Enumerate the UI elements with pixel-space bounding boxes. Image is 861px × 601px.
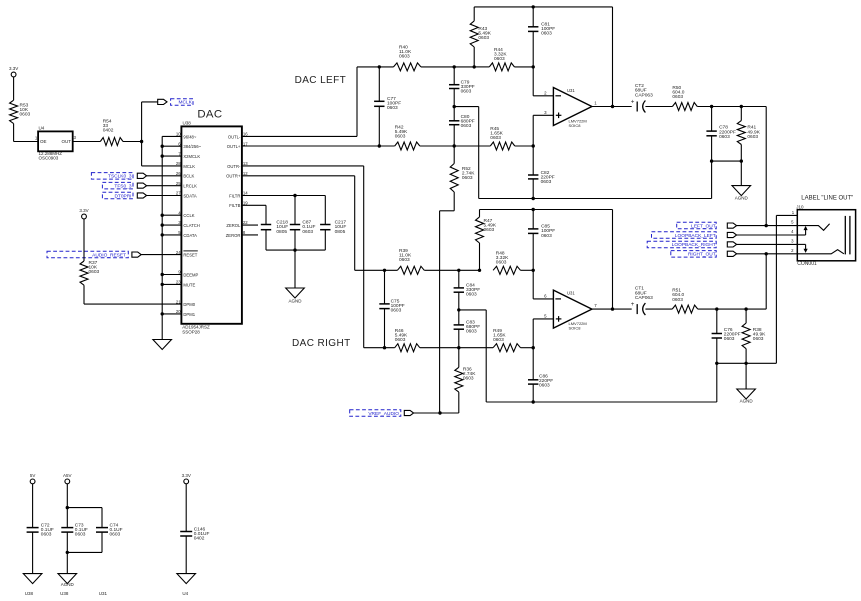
- svg-text:RIGHT_OUT: RIGHT_OUT: [688, 252, 716, 258]
- svg-text:DPM0: DPM0: [183, 302, 195, 307]
- node: [532, 346, 535, 349]
- svg-text:22: 22: [243, 220, 248, 225]
- wire: [459, 347, 533, 349]
- svg-text:0603: 0603: [75, 532, 86, 538]
- svg-text:ZEROR: ZEROR: [226, 233, 241, 238]
- resistor R48: [493, 250, 520, 274]
- power 3.3V (DPM0 pull-up): [79, 208, 88, 219]
- ground AGND (right channel): [737, 389, 756, 404]
- svg-text:BCLK: BCLK: [183, 174, 194, 179]
- svg-text:CAP063: CAP063: [635, 295, 653, 301]
- svg-text:SOIC8: SOIC8: [569, 326, 582, 331]
- svg-text:OUTR+: OUTR+: [226, 174, 241, 179]
- wire to op-amp pin 2: [533, 67, 553, 96]
- wire: [420, 145, 454, 147]
- capacitor C84: [454, 270, 481, 310]
- wire: [142, 142, 182, 166]
- wire OUTR+: [242, 176, 398, 270]
- svg-text:0603: 0603: [541, 31, 552, 37]
- svg-text:0603: 0603: [466, 329, 477, 335]
- svg-text:A5V: A5V: [63, 473, 72, 478]
- wire to LEFT_OUT: [765, 107, 767, 226]
- svg-text:0603: 0603: [747, 134, 758, 140]
- svg-text:U38: U38: [60, 591, 69, 596]
- svg-text:0603: 0603: [494, 56, 505, 62]
- power 3.3V (oscillator pull-up): [9, 66, 18, 77]
- node: [378, 65, 476, 68]
- capacitor C217: [320, 220, 346, 235]
- node: [66, 506, 69, 509]
- svg-text:CON001: CON001: [797, 261, 817, 267]
- net LOOPBACK_RIGHT: [647, 241, 797, 248]
- svg-text:0603: 0603: [399, 54, 410, 60]
- svg-text:SSOP28: SSOP28: [182, 329, 200, 334]
- capacitor C81: [528, 7, 555, 67]
- node: [293, 248, 296, 251]
- ground (C146): [177, 574, 196, 584]
- capacitor C87: [290, 196, 316, 235]
- capacitor C74: [96, 523, 123, 538]
- svg-text:0805: 0805: [276, 229, 287, 235]
- svg-text:0603: 0603: [478, 35, 489, 41]
- capacitor C80: [449, 107, 475, 146]
- svg-text:DAC: DAC: [197, 109, 222, 121]
- svg-text:U38: U38: [25, 591, 34, 596]
- svg-text:3.3V: 3.3V: [79, 208, 88, 213]
- svg-text:AUDIO_RESET: AUDIO_RESET: [92, 252, 126, 258]
- net MCLK off-page connector: [158, 99, 193, 106]
- resistor R41: [737, 107, 760, 162]
- svg-text:AGND: AGND: [735, 196, 749, 201]
- capacitor C77: [374, 67, 401, 146]
- wire: [454, 145, 533, 147]
- svg-text:AGND: AGND: [288, 299, 302, 304]
- wire: [123, 141, 142, 143]
- node: [532, 5, 535, 8]
- svg-text:OUTR-: OUTR-: [227, 164, 241, 169]
- wire tap rail to AGND net: [454, 107, 711, 199]
- resistor R37: [80, 260, 100, 285]
- node: [611, 105, 614, 108]
- wire ZEROR stub: [242, 234, 258, 236]
- svg-text:3.3V: 3.3V: [182, 473, 191, 478]
- wire to op-amp pin 5: [533, 319, 553, 348]
- svg-text:CAP063: CAP063: [635, 92, 653, 98]
- resistor R39: [397, 248, 424, 274]
- oscillator U4 12.288MHZ: [35, 125, 77, 160]
- node: [532, 197, 535, 200]
- svg-text:0603: 0603: [672, 297, 683, 303]
- node: [383, 269, 481, 272]
- net AUDIO_RESET: [47, 251, 181, 258]
- svg-text:X2MCLK: X2MCLK: [183, 154, 200, 159]
- wire: [717, 215, 777, 363]
- svg-text:0603: 0603: [541, 233, 552, 239]
- ground AGND (A5V): [58, 574, 77, 587]
- svg-text:0603: 0603: [724, 336, 735, 342]
- label U38 (power): [25, 591, 34, 596]
- svg-text:RESET: RESET: [183, 253, 197, 258]
- capacitor C83: [454, 310, 481, 348]
- wire: [67, 532, 102, 574]
- bus junction dots: [161, 145, 164, 316]
- svg-text:U4: U4: [39, 125, 45, 130]
- svg-text:U38: U38: [183, 120, 192, 125]
- svg-text:LRCLK: LRCLK: [183, 184, 197, 189]
- power 5V: [30, 473, 36, 484]
- wire: [740, 161, 742, 186]
- svg-text:0603: 0603: [484, 227, 495, 233]
- net TFS0_3: [102, 182, 181, 189]
- resistor R43: [470, 7, 492, 67]
- power 3.3V (C146): [182, 473, 191, 484]
- wire op-amp output: [592, 106, 632, 108]
- svg-text:DAC LEFT: DAC LEFT: [295, 75, 347, 86]
- op-amp U31 (left channel): [544, 88, 597, 128]
- capacitor C78: [706, 107, 736, 162]
- label U38 (A5V): [60, 591, 69, 596]
- svg-text:0603: 0603: [496, 260, 507, 266]
- svg-text:0402: 0402: [194, 536, 205, 542]
- wire to op-amp pin 3: [533, 115, 553, 146]
- wire: [521, 269, 534, 271]
- wire: [294, 250, 296, 288]
- svg-text:21: 21: [176, 299, 181, 304]
- resistor R36: [455, 348, 476, 392]
- wire FILTR: [242, 196, 325, 225]
- svg-text:0603: 0603: [302, 229, 313, 235]
- wire feedback riser (right): [612, 210, 614, 310]
- ground AGND (filter caps): [286, 288, 305, 304]
- svg-text:FILTR: FILTR: [229, 193, 240, 198]
- wire: [32, 532, 34, 574]
- svg-text:0603: 0603: [41, 532, 52, 538]
- wire: [142, 102, 158, 142]
- resistor R50: [672, 85, 697, 111]
- wire: [440, 192, 455, 413]
- capacitor C76: [712, 309, 741, 363]
- resistor R49: [493, 328, 520, 352]
- svg-text:0603: 0603: [490, 135, 501, 141]
- node C84/C83 tap: [457, 308, 460, 311]
- node C79/C80 tap: [453, 105, 456, 108]
- node: [611, 307, 614, 310]
- capacitor C218: [261, 220, 288, 235]
- svg-text:OE: OE: [40, 139, 47, 144]
- net DT0PRI: [102, 192, 181, 199]
- svg-text:0603: 0603: [461, 123, 472, 129]
- ground AGND (left channel): [732, 186, 751, 201]
- wire: [13, 77, 15, 100]
- capacitor CT2 68UF: [631, 83, 653, 112]
- svg-text:U31: U31: [99, 591, 108, 596]
- wire: [645, 106, 672, 108]
- svg-text:LEFT_OUT: LEFT_OUT: [691, 223, 716, 229]
- capacitor C82: [528, 146, 555, 199]
- svg-text:CDATA: CDATA: [183, 233, 197, 238]
- node: [66, 551, 69, 554]
- svg-text:CCLK: CCLK: [183, 213, 194, 218]
- svg-text:+: +: [631, 98, 635, 105]
- wire: [14, 124, 38, 142]
- node: [710, 159, 743, 162]
- capacitor C86: [528, 348, 553, 402]
- svg-text:0603: 0603: [463, 376, 474, 382]
- wire: [73, 141, 101, 143]
- net TSCLK0_3: [91, 173, 181, 180]
- svg-text:5V: 5V: [30, 473, 36, 478]
- capacitor C73: [61, 523, 88, 538]
- svg-text:0603: 0603: [391, 308, 402, 314]
- wire: [421, 66, 474, 68]
- svg-text:U31: U31: [567, 88, 575, 93]
- node: [383, 346, 461, 349]
- svg-text:0603: 0603: [753, 336, 764, 342]
- svg-text:CLATCH: CLATCH: [183, 223, 199, 228]
- svg-text:MCLK: MCLK: [183, 164, 195, 169]
- svg-text:U4: U4: [182, 591, 188, 596]
- wire feedback riser: [612, 7, 614, 107]
- resistor R42: [395, 125, 420, 151]
- wire: [712, 160, 742, 162]
- svg-text:0603: 0603: [89, 269, 100, 275]
- svg-text:0603: 0603: [110, 532, 121, 538]
- wire: [84, 285, 181, 304]
- capacitor C85: [528, 210, 555, 271]
- node: [715, 362, 748, 365]
- net RIGHT_OUT: [671, 251, 798, 258]
- wire jack ground pin 1: [776, 214, 797, 216]
- wire tap rail to AGND net (right): [459, 310, 717, 402]
- svg-text:0603: 0603: [387, 105, 398, 111]
- DAC IC U38 AD1954JRSZ: [181, 109, 242, 335]
- resistor R53: [10, 100, 31, 123]
- node MCLK junction: [140, 140, 143, 143]
- wire: [420, 347, 459, 349]
- node: [378, 144, 456, 147]
- wire: [67, 484, 102, 528]
- wire: [185, 484, 187, 532]
- wire: [697, 106, 766, 108]
- svg-text:OUTL-: OUTL-: [228, 134, 241, 139]
- wire feedback rail (right): [480, 209, 613, 211]
- svg-text:0603: 0603: [395, 134, 406, 140]
- connector J10 CON001 line-out jack: [791, 204, 855, 267]
- svg-text:U31: U31: [567, 291, 575, 296]
- label U4 (power): [182, 591, 188, 596]
- wire FILTB: [242, 205, 266, 224]
- net LOOPBACK_LEFT: [652, 232, 798, 239]
- wire: [185, 536, 187, 574]
- resistor R54: [100, 118, 123, 145]
- svg-text:25: 25: [176, 181, 181, 186]
- svg-text:ZEROL: ZEROL: [226, 223, 241, 228]
- svg-text:+: +: [631, 301, 635, 308]
- wire: [424, 269, 479, 271]
- node: [532, 208, 535, 211]
- resistor R51: [672, 288, 698, 314]
- wire to op-amp pin 6: [533, 270, 553, 299]
- svg-text:SDATA: SDATA: [183, 193, 197, 198]
- svg-text:0603: 0603: [493, 337, 504, 343]
- svg-text:LOOPBACK_RIGHT: LOOPBACK_RIGHT: [672, 242, 716, 248]
- wire: [474, 66, 533, 68]
- svg-text:OUT: OUT: [62, 139, 72, 144]
- capacitor C79: [449, 67, 475, 107]
- label DAC LEFT: [295, 75, 347, 86]
- resistor R52: [450, 146, 475, 192]
- ground bus wire: [162, 136, 181, 339]
- svg-text:AGND: AGND: [740, 399, 754, 404]
- wire OUTR-: [242, 166, 364, 348]
- svg-text:SOIC8: SOIC8: [569, 123, 582, 128]
- svg-text:0603: 0603: [399, 257, 410, 263]
- svg-text:DPM1: DPM1: [183, 312, 195, 317]
- wire: [440, 392, 459, 413]
- svg-text:VREF_AUDIO: VREF_AUDIO: [368, 411, 399, 417]
- capacitor C72: [27, 523, 54, 538]
- svg-text:TSCLK0_3: TSCLK0_3: [108, 174, 132, 180]
- svg-text:28: 28: [176, 161, 181, 166]
- resistor R44: [489, 47, 514, 71]
- svg-text:0603: 0603: [539, 383, 550, 389]
- wire OUTL+: [242, 145, 395, 147]
- U38 left pin labels: [176, 132, 202, 317]
- wire: [266, 230, 325, 250]
- svg-text:0603: 0603: [462, 175, 473, 181]
- svg-text:DT0PRI: DT0PRI: [114, 193, 131, 199]
- resistor R46: [395, 328, 420, 352]
- capacitor CT1 68UF: [631, 286, 653, 315]
- svg-text:96/48~: 96/48~: [183, 134, 196, 139]
- op-amp U31 (right channel): [544, 290, 597, 330]
- svg-text:0603: 0603: [541, 179, 552, 185]
- wire: [32, 484, 34, 528]
- node: [532, 400, 535, 403]
- node: [532, 65, 535, 68]
- node: [532, 269, 535, 272]
- svg-text:0603: 0603: [20, 112, 31, 118]
- wire top feedback rail: [474, 6, 612, 8]
- svg-text:0402: 0402: [103, 128, 114, 134]
- svg-text:OSC0903: OSC0903: [39, 156, 59, 161]
- U38 right pin labels: [226, 132, 249, 238]
- wire op-amp output: [592, 308, 632, 310]
- power A5V: [63, 473, 72, 484]
- node: [438, 411, 441, 414]
- ground: [153, 340, 172, 350]
- svg-text:0603: 0603: [672, 94, 683, 100]
- net LEFT_OUT: [677, 222, 798, 229]
- svg-text:MUTE: MUTE: [183, 282, 195, 287]
- net VREF_AUDIO: [350, 410, 440, 417]
- svg-text:0603: 0603: [719, 134, 730, 140]
- resistor R45: [490, 126, 515, 150]
- label LINE OUT: [801, 195, 853, 201]
- node: [293, 194, 296, 197]
- wire OUTL-: [242, 67, 394, 136]
- svg-text:FILTB: FILTB: [229, 203, 240, 208]
- node: [715, 307, 748, 310]
- node: [710, 105, 743, 108]
- svg-text:0805: 0805: [335, 229, 346, 235]
- wire: [645, 308, 672, 310]
- svg-text:0603: 0603: [395, 337, 406, 343]
- svg-text:LABEL "LINE OUT": LABEL "LINE OUT": [801, 195, 853, 201]
- svg-text:J10: J10: [796, 204, 804, 209]
- svg-text:0603: 0603: [466, 292, 477, 298]
- capacitor C146: [180, 526, 209, 541]
- svg-text:TFS0_3: TFS0_3: [114, 184, 131, 190]
- node: [532, 144, 535, 147]
- resistor R40: [394, 45, 421, 71]
- svg-text:DEEMP: DEEMP: [183, 272, 198, 277]
- svg-text:384/256~: 384/256~: [183, 144, 201, 149]
- capacitor C75: [379, 270, 405, 347]
- svg-text:3.3V: 3.3V: [9, 66, 18, 71]
- svg-text:DAC RIGHT: DAC RIGHT: [292, 338, 351, 349]
- resistor R38: [742, 309, 766, 363]
- wire: [83, 219, 85, 261]
- wire: [364, 347, 395, 349]
- ground (C72): [23, 574, 42, 584]
- svg-text:AGND: AGND: [61, 582, 75, 587]
- svg-text:LOOPBACK_LEFT: LOOPBACK_LEFT: [675, 233, 716, 239]
- resistor R47: [476, 210, 497, 271]
- wire ZEROL stub: [242, 224, 258, 226]
- svg-text:0603: 0603: [461, 89, 472, 95]
- label U31 (A5V): [99, 591, 108, 596]
- wire: [698, 254, 766, 309]
- label DAC RIGHT: [292, 338, 351, 349]
- wire: [745, 363, 747, 389]
- node: [765, 224, 768, 256]
- svg-text:OUTL+: OUTL+: [227, 144, 241, 149]
- svg-text:MCLK: MCLK: [178, 100, 192, 106]
